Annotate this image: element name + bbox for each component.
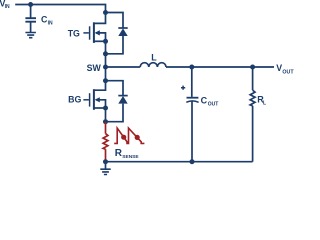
junction dot SW (103, 65, 108, 70)
node VOUT (276, 63, 294, 76)
svg-text:BG: BG (68, 94, 81, 104)
svg-text:TG: TG (68, 29, 80, 39)
wire TG source to SW (105, 41, 107, 67)
junction dot TG drain (103, 10, 108, 15)
label COUT (201, 95, 219, 107)
wire SW to inductor (106, 66, 141, 68)
svg-text:V: V (276, 63, 282, 73)
inductor L (140, 63, 166, 67)
wire top rail VIN to TG drain (15, 5, 105, 13)
resistor RL (250, 67, 255, 162)
transistor BG (bottom MOSFET) (83, 81, 105, 110)
plus sign (181, 86, 185, 90)
wire COUT top lead (191, 67, 193, 97)
label BG (68, 94, 81, 104)
junction dot COUT bottom (190, 159, 195, 164)
label TG (68, 29, 80, 39)
junction dot CIN (28, 2, 33, 7)
diode BG body diode (106, 81, 128, 122)
label L (151, 52, 157, 62)
node VIN (0, 0, 10, 10)
capacitor C_IN (25, 18, 36, 32)
svg-text:C: C (201, 95, 208, 105)
junction dot bottom left (103, 159, 108, 164)
svg-text:IN: IN (48, 20, 53, 26)
wire BG source down (105, 108, 107, 122)
waveform icon (red current pulses) (114, 128, 144, 143)
svg-text:OUT: OUT (208, 102, 219, 108)
label RSENSE (115, 148, 140, 160)
svg-text:OUT: OUT (282, 70, 294, 76)
svg-text:L: L (263, 100, 266, 106)
node SW (87, 63, 102, 73)
resistor RSENSE (red) (103, 122, 108, 162)
junction dot BG drain (103, 78, 108, 83)
ground (below CIN) (25, 33, 36, 38)
junction dot diode TG bottom (103, 51, 108, 56)
svg-text:SW: SW (87, 63, 102, 73)
junction dot COUT top (189, 65, 194, 70)
svg-text:SENSE: SENSE (122, 154, 139, 160)
wire bottom rail (106, 161, 253, 163)
label RL (257, 94, 266, 106)
diode TG body diode (106, 13, 128, 54)
junction dot RL top (250, 65, 255, 70)
svg-text:L: L (151, 52, 157, 62)
junction dot BG source (103, 106, 108, 111)
svg-text:IN: IN (5, 4, 10, 10)
wire SW to BG drain (105, 67, 107, 81)
label CIN (41, 14, 53, 26)
wire CIN lead (30, 5, 32, 19)
capacitor COUT (polarized) (186, 98, 198, 162)
junction dot diode BG bottom (103, 119, 108, 124)
wire inductor to VOUT (166, 66, 274, 68)
junction dot TG source (103, 39, 108, 44)
ground (bottom) (100, 162, 110, 175)
transistor TG (top MOSFET) (83, 13, 105, 43)
